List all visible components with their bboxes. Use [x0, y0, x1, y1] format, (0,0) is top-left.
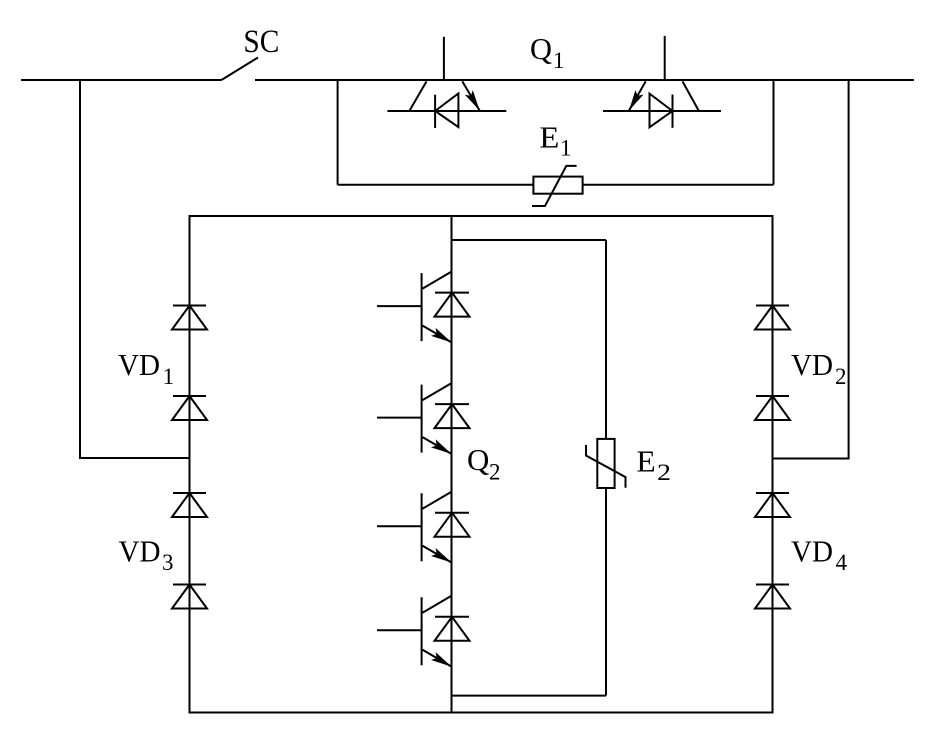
svg-text:VD: VD — [119, 534, 161, 569]
svg-text:Q: Q — [467, 442, 489, 477]
svg-text:VD: VD — [118, 347, 160, 382]
svg-text:3: 3 — [162, 550, 174, 575]
svg-text:4: 4 — [836, 550, 848, 575]
svg-text:E: E — [539, 120, 559, 155]
svg-text:VD: VD — [791, 347, 833, 382]
svg-text:Q: Q — [530, 31, 552, 66]
svg-text:2: 2 — [835, 364, 847, 389]
svg-text:2: 2 — [657, 460, 671, 485]
svg-text:2: 2 — [489, 460, 501, 485]
svg-text:1: 1 — [163, 364, 175, 389]
svg-text:1: 1 — [560, 136, 572, 161]
svg-text:SC: SC — [243, 24, 279, 60]
svg-text:E: E — [636, 444, 655, 479]
svg-text:VD: VD — [791, 534, 833, 569]
svg-text:1: 1 — [553, 48, 565, 73]
